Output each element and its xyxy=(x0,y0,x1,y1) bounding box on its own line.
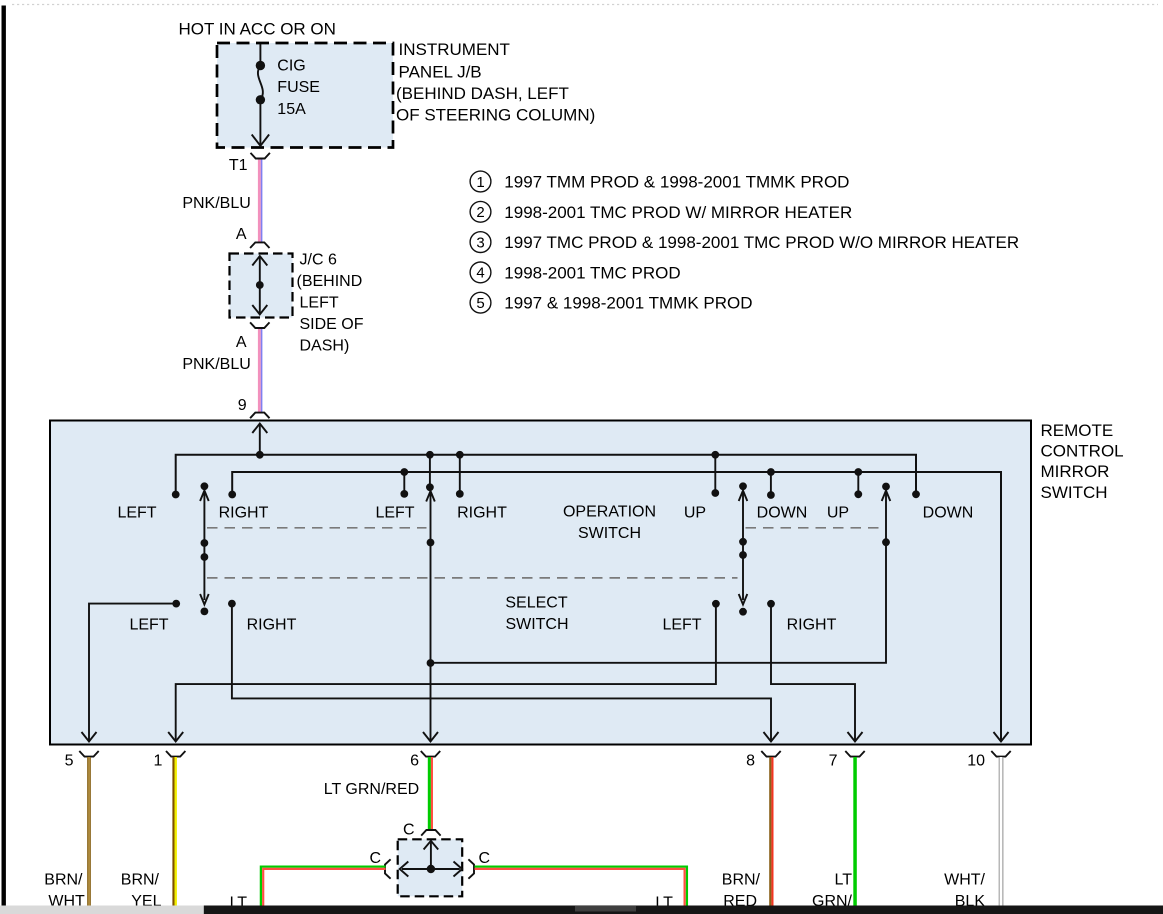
operation switch left wiper W1 xyxy=(200,482,209,615)
svg-text:C: C xyxy=(369,850,381,867)
operation switch up/down wiper W3 xyxy=(739,482,748,615)
connector A lower xyxy=(250,322,269,328)
fuse CIG FUSE 15A xyxy=(252,61,269,146)
pin 6 exit arrow xyxy=(423,732,438,742)
svg-text:(BEHIND: (BEHIND xyxy=(297,273,363,290)
svg-text:SELECT: SELECT xyxy=(505,595,567,612)
svg-text:DASH): DASH) xyxy=(300,337,350,354)
wire from HOT feed into fuse xyxy=(259,44,261,66)
svg-text:LT GRN/RED: LT GRN/RED xyxy=(324,781,419,798)
contact stub bus2 to UP contact x858 xyxy=(857,472,859,494)
legend note 5 xyxy=(470,292,491,313)
wire WHT/BLK pin 10 xyxy=(999,757,1000,906)
svg-text:LT: LT xyxy=(835,872,853,889)
bottom bar scroll thumb xyxy=(575,906,636,912)
svg-text:7: 7 xyxy=(829,753,838,770)
select switch right section RIGHT contact wire to pin 7 xyxy=(767,600,775,608)
svg-text:5: 5 xyxy=(65,753,74,770)
contact dot LEFT end bus1 xyxy=(172,491,180,499)
junction dot bus1 x460 xyxy=(456,451,464,459)
svg-text:DOWN: DOWN xyxy=(923,505,974,522)
svg-text:FUSE: FUSE xyxy=(277,79,320,96)
legend note 1 xyxy=(470,171,491,192)
svg-text:LEFT: LEFT xyxy=(375,505,414,522)
svg-text:CIG: CIG xyxy=(277,58,305,75)
svg-text:INSTRUMENT: INSTRUMENT xyxy=(399,40,510,59)
junction dot bus1 x430 xyxy=(426,451,434,459)
wiper wire to pin 6 xyxy=(426,491,435,741)
svg-text:BRN/: BRN/ xyxy=(44,872,83,889)
legend note 2 xyxy=(470,201,491,222)
svg-text:1997 TMM PROD & 1998-2001 TMMK: 1997 TMM PROD & 1998-2001 TMMK PROD xyxy=(504,173,849,192)
remote control mirror switch box xyxy=(50,421,1031,745)
svg-text:8: 8 xyxy=(746,753,755,770)
svg-text:C: C xyxy=(479,850,491,867)
connector C right xyxy=(468,859,474,878)
contact stub bus2 to DOWN contact x771 xyxy=(770,472,772,495)
svg-text:LEFT: LEFT xyxy=(117,505,156,522)
junction dot bus1 / pin9 xyxy=(256,451,264,459)
svg-text:1998-2001 TMC PROD: 1998-2001 TMC PROD xyxy=(504,263,680,282)
pin 7 exit arrow xyxy=(848,732,863,742)
bus wire lower (ground rail to pin 10) xyxy=(232,472,1001,741)
svg-text:OPERATION: OPERATION xyxy=(563,504,656,521)
svg-text:OF STEERING COLUMN): OF STEERING COLUMN) xyxy=(396,105,595,124)
connector pin 6 xyxy=(421,751,440,757)
dashed linkage select switch xyxy=(207,577,738,579)
svg-text:DOWN: DOWN xyxy=(757,505,808,522)
svg-text:CONTROL: CONTROL xyxy=(1041,442,1124,461)
page top dotted rule xyxy=(12,4,1158,6)
contact stub bus1 to RIGHT contact x460 xyxy=(459,455,461,494)
svg-text:1: 1 xyxy=(153,753,162,770)
contact dot LEFT end bus2 xyxy=(228,491,236,499)
wire LT GRN pin 7 xyxy=(853,757,857,906)
svg-text:3: 3 xyxy=(476,234,484,251)
svg-text:4: 4 xyxy=(476,265,484,282)
svg-text:HOT IN ACC OR ON: HOT IN ACC OR ON xyxy=(179,19,336,38)
junction dot bus2 x771 xyxy=(767,468,775,476)
pin 8 exit arrow xyxy=(764,732,779,742)
svg-text:1997 & 1998-2001 TMMK PROD: 1997 & 1998-2001 TMMK PROD xyxy=(504,294,752,313)
wire PNK/BLU lower xyxy=(258,329,261,412)
connector C left xyxy=(385,859,391,878)
svg-text:SWITCH: SWITCH xyxy=(1041,483,1108,502)
contact stub bus1 to centre contact x430 xyxy=(429,455,431,488)
svg-text:A: A xyxy=(236,226,247,243)
bottom bar light segment xyxy=(0,906,204,914)
wire BRN/RED pin 8 xyxy=(769,757,771,906)
svg-text:9: 9 xyxy=(238,397,247,414)
bottom bar dark segment xyxy=(204,906,1163,914)
contact dot RIGHT end bus1 DOWN xyxy=(912,490,920,498)
junction block J/C 6 xyxy=(230,254,293,318)
svg-text:BRN/: BRN/ xyxy=(722,872,761,889)
svg-text:LEFT: LEFT xyxy=(129,617,168,634)
svg-text:RIGHT: RIGHT xyxy=(787,617,837,634)
svg-text:LEFT: LEFT xyxy=(662,617,701,634)
svg-text:REMOTE: REMOTE xyxy=(1041,421,1114,440)
wire LT GRN/RED C right branch xyxy=(475,867,687,906)
contact stub bus2 to LEFT contact xyxy=(403,472,405,494)
svg-text:1: 1 xyxy=(476,174,484,191)
connector T1 xyxy=(251,153,270,159)
svg-text:15A: 15A xyxy=(277,101,306,118)
junction dot bus2 x858 xyxy=(854,468,862,476)
legend note 3 xyxy=(470,232,491,253)
svg-text:SWITCH: SWITCH xyxy=(505,616,568,633)
svg-text:RIGHT: RIGHT xyxy=(247,617,297,634)
svg-text:T1: T1 xyxy=(229,157,248,174)
svg-text:2: 2 xyxy=(476,204,484,221)
svg-text:SIDE OF: SIDE OF xyxy=(300,316,364,333)
pin 1 exit arrow xyxy=(168,732,183,742)
wire BRN/YEL pin 1 xyxy=(172,757,174,906)
dashed linkage operation switch left xyxy=(207,527,427,529)
svg-text:MIRROR: MIRROR xyxy=(1041,462,1110,481)
select switch left section LEFT contact wire to pin 5 xyxy=(172,600,180,608)
connector pin 5 xyxy=(79,751,98,757)
connector pin 8 xyxy=(761,751,780,757)
connector pin 1 xyxy=(166,751,185,757)
pin 9 entry wire with up arrow xyxy=(252,424,267,455)
connector A upper xyxy=(250,242,269,248)
svg-text:PANEL J/B: PANEL J/B xyxy=(399,62,482,81)
junction block C xyxy=(398,839,463,896)
svg-text:RIGHT: RIGHT xyxy=(457,505,507,522)
svg-text:5: 5 xyxy=(476,295,484,312)
svg-text:A: A xyxy=(236,334,247,351)
pin 5 exit arrow xyxy=(82,732,97,742)
wire LT GRN/RED pin 6 xyxy=(428,757,431,830)
instrument panel J/B box xyxy=(217,43,393,148)
svg-text:C: C xyxy=(403,822,415,839)
legend note 4 xyxy=(470,262,491,283)
svg-text:WHT/: WHT/ xyxy=(944,872,985,889)
connector pin 10 xyxy=(991,751,1010,757)
svg-text:UP: UP xyxy=(827,505,849,522)
select switch left section RIGHT contact wire to pin 8 xyxy=(228,600,236,608)
connector pin 9 xyxy=(250,413,269,419)
wire BRN/WHT pin 5 xyxy=(87,757,91,906)
operation switch up/down wiper W4 to pin 6 rail xyxy=(431,483,891,663)
svg-text:BRN/: BRN/ xyxy=(121,872,160,889)
bus wire upper (battery feed rail) xyxy=(176,455,916,495)
svg-text:10: 10 xyxy=(967,753,985,770)
left page edge bar xyxy=(2,6,6,906)
svg-text:PNK/BLU: PNK/BLU xyxy=(182,195,250,212)
wire PNK/BLU upper xyxy=(258,160,261,243)
dashed linkage operation switch right xyxy=(746,527,884,529)
pin 10 exit arrow xyxy=(994,732,1009,742)
junction dot bus2 x404 xyxy=(400,468,408,476)
svg-text:(BEHIND DASH, LEFT: (BEHIND DASH, LEFT xyxy=(396,84,569,103)
svg-text:1998-2001 TMC PROD W/ MIRROR H: 1998-2001 TMC PROD W/ MIRROR HEATER xyxy=(504,203,852,222)
svg-text:1997 TMC PROD & 1998-2001 TMC: 1997 TMC PROD & 1998-2001 TMC PROD W/O M… xyxy=(504,233,1019,252)
junction dot bus1 x715 xyxy=(711,451,719,459)
contact stub bus1 to UP contact x715 xyxy=(714,455,716,493)
svg-text:6: 6 xyxy=(410,753,419,770)
connector pin 7 xyxy=(845,751,864,757)
J/C 6 internal bus xyxy=(252,256,267,315)
svg-text:SWITCH: SWITCH xyxy=(578,525,641,542)
connector C top xyxy=(421,830,440,836)
junction block C internal node xyxy=(400,841,462,877)
svg-text:UP: UP xyxy=(684,505,706,522)
svg-text:PNK/BLU: PNK/BLU xyxy=(182,356,250,373)
svg-text:J/C 6: J/C 6 xyxy=(300,251,337,268)
wire LT GRN/RED C left branch xyxy=(261,867,386,906)
svg-text:RIGHT: RIGHT xyxy=(219,505,269,522)
select switch right section LEFT contact wire to pin 1 xyxy=(712,600,720,608)
svg-text:LEFT: LEFT xyxy=(300,294,339,311)
